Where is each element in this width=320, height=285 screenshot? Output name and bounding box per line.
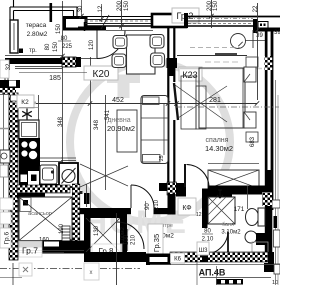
bottom black squares row: [216, 279, 243, 285]
wardrobe bedroom bottom with X: [208, 170, 259, 189]
door arc bedroom-hall: [184, 164, 186, 187]
svg-text:Гр.7: Гр.7: [22, 246, 38, 256]
svg-text:348: 348: [58, 116, 64, 127]
svg-text:К20: К20: [93, 69, 110, 80]
kitchen upper cabinet: [38, 95, 40, 122]
door leaf terrace: [96, 31, 98, 59]
sofa: [141, 96, 168, 164]
chair right 1: [150, 35, 164, 49]
label K6: [171, 253, 185, 263]
wall below elevator right: [42, 247, 84, 254]
door arc living-hall: [131, 185, 154, 208]
svg-text:тр.: тр.: [29, 48, 37, 54]
svg-text:3.10м2: 3.10м2: [221, 230, 241, 236]
corridor dash line: [0, 268, 140, 270]
right margin black bits: [274, 216, 278, 228]
building outline west thin: [3, 93, 5, 230]
svg-text:348: 348: [94, 119, 100, 130]
elevator cab: [19, 197, 72, 241]
dining table: [127, 35, 156, 74]
vent box H: [258, 22, 268, 29]
window band bedroom: [188, 18, 253, 20]
svg-text:281: 281: [209, 97, 221, 104]
terrace floor drain: [19, 49, 23, 54]
svg-text:200: 200: [117, 0, 123, 11]
svg-text:120: 120: [89, 39, 95, 50]
wardrobe by door: [181, 76, 196, 129]
kitchen cabinet dark: [19, 161, 40, 188]
svg-text:К2: К2: [21, 99, 29, 106]
label Gr6 rotated left: [0, 228, 11, 248]
svg-text:АП.4В: АП.4В: [199, 268, 226, 278]
bedroom curtain line: [177, 55, 247, 57]
svg-text:452: 452: [112, 97, 124, 104]
wall bathroom west bottom end: [202, 250, 208, 262]
svg-text:210: 210: [154, 199, 160, 210]
svg-text:х: х: [90, 270, 93, 276]
lamp circle: [231, 34, 246, 49]
svg-text:Гр.35: Гр.35: [152, 234, 161, 252]
wall living south: [80, 208, 131, 214]
wire grid line vertical x62: [62, 1, 64, 192]
svg-text:20.90м2: 20.90м2: [107, 124, 135, 133]
chair left 2: [112, 54, 126, 68]
svg-text:30: 30: [78, 5, 84, 12]
wall pier left of bedroom window: [184, 13, 188, 28]
right side boxes: [272, 200, 280, 208]
asterisk symbol: [22, 109, 32, 120]
entry door arc: [117, 222, 144, 249]
dim line main horizontal: [16, 102, 36, 104]
bathroom east line: [196, 262, 198, 285]
dim ticks: [17, 101, 21, 105]
svg-text:10: 10: [272, 280, 278, 285]
wall bedroom south: [159, 183, 168, 191]
terrace floor edge: [5, 55, 63, 57]
wall bathroom west: [202, 189, 208, 229]
elevator corner black: [72, 184, 80, 193]
label box 32 rotated: [0, 60, 9, 78]
window band living room: [85, 16, 153, 18]
svg-text:асансьор: асансьор: [28, 211, 52, 217]
label Sh3: [197, 242, 209, 255]
svg-text:Гр.6: Гр.6: [4, 232, 11, 245]
svg-text:Ш3: Ш3: [199, 248, 208, 254]
wall east solid fill low: [265, 170, 272, 255]
label Gr7: [19, 241, 42, 257]
svg-text:210: 210: [131, 234, 137, 245]
door leaf bedroom: [174, 83, 178, 120]
svg-text:190: 190: [59, 223, 65, 234]
terrace divider bar: [50, 3, 53, 22]
label box K23: [179, 67, 202, 81]
svg-text:баня: баня: [222, 222, 234, 228]
svg-text:тераса: тераса: [26, 22, 47, 29]
nightstand top: [246, 57, 258, 67]
label Gr8: [92, 244, 122, 257]
ladder icon: [62, 226, 70, 241]
bed: [199, 68, 245, 128]
door arc terrace: [97, 31, 125, 59]
west wall white box: [11, 95, 18, 101]
label Gr3 rotated: [148, 224, 163, 261]
kitchen fan lines: [80, 164, 128, 186]
wall below terrace: [5, 58, 63, 64]
wire grid line vertical x105: [105, 95, 107, 190]
svg-text:130: 130: [94, 225, 100, 236]
boiler box with circle slash: [59, 163, 78, 187]
coffee table: [117, 110, 137, 152]
nightstand bottom: [246, 132, 258, 142]
svg-text:171: 171: [234, 206, 245, 213]
terrace rail outer: [10, 0, 77, 20]
svg-text:150: 150: [53, 41, 59, 52]
svg-text:541: 541: [105, 109, 111, 120]
shower: [208, 197, 235, 224]
svg-text:12: 12: [196, 212, 202, 218]
stove: [19, 138, 40, 161]
svg-text:25: 25: [159, 155, 165, 161]
cabinet connector: [57, 184, 62, 189]
wall stub above: [5, 64, 8, 80]
svg-text:150: 150: [56, 23, 62, 34]
svg-text:2.80м2: 2.80м2: [27, 31, 48, 38]
counter lines: [40, 157, 62, 159]
window sill pier: [78, 27, 106, 31]
watermark ring: [70, 62, 230, 222]
watermark T glyph: [107, 75, 140, 99]
shaft Gr8: [84, 212, 125, 218]
wall living-bedroom divider: [167, 27, 169, 183]
chair right 2: [151, 53, 165, 67]
wall bedroom north face line: [186, 16, 280, 18]
svg-text:32: 32: [6, 63, 12, 70]
label box Gr2: [172, 8, 199, 23]
elevator bottom wall: [19, 241, 84, 248]
svg-text:К6: К6: [174, 257, 181, 263]
svg-text:22: 22: [253, 5, 259, 12]
svg-text:80: 80: [45, 43, 51, 50]
wall corner northwest: [0, 80, 20, 88]
wall inner face lines kitchen top: [15, 66, 62, 68]
sink: [40, 165, 57, 184]
terrace door frame: [65, 18, 87, 30]
svg-text:90: 90: [145, 203, 151, 210]
svg-text:150: 150: [213, 0, 219, 11]
bottom wall: [84, 252, 146, 262]
wall bridge to elevator: [17, 192, 45, 199]
wire grid line vertical x90: [90, 57, 92, 212]
pillow top: [244, 67, 256, 82]
svg-text:КФ: КФ: [182, 205, 191, 212]
lines below elevator: [19, 250, 84, 252]
wardrobe bedroom top: [190, 47, 240, 49]
elevator right hatch wall: [72, 184, 80, 246]
neighbor boxes left: [0, 198, 13, 210]
wall east double line: [265, 31, 268, 255]
terrace window jamb: [10, 20, 18, 53]
washbasin: [245, 231, 257, 243]
wall east hatch: [265, 56, 273, 70]
fridge cabinet: [19, 120, 39, 139]
toilet: [246, 209, 259, 226]
svg-text:225: 225: [62, 44, 73, 50]
shaft west wall: [84, 212, 91, 262]
label box K2: [15, 102, 36, 105]
svg-text:150: 150: [124, 0, 130, 11]
svg-text:683: 683: [250, 136, 256, 147]
right margin lines: [275, 80, 277, 285]
top dim verticals: [81, 0, 83, 16]
chair left 1: [113, 36, 127, 49]
svg-text:39: 39: [274, 30, 280, 36]
label box KF: [178, 198, 196, 215]
svg-text:80: 80: [204, 229, 211, 235]
door swing lines bedroom: [175, 85, 227, 122]
beam Gr2 slot: [152, 14, 186, 27]
svg-text:спалня: спалня: [206, 137, 229, 144]
svg-text:12: 12: [98, 5, 104, 12]
window break slash: [101, 15, 109, 29]
kitchen door jamb marks: [84, 193, 90, 204]
wall junction blob: [167, 58, 178, 68]
wall hatch below terrace: [62, 57, 76, 67]
washing machine neighbor: [0, 150, 10, 163]
svg-text:185: 185: [49, 75, 61, 82]
label box K20: [84, 66, 118, 80]
corridor label boxes: [19, 263, 32, 276]
elevator top hatch wall: [17, 185, 70, 193]
wall top right corner: [253, 19, 258, 33]
svg-text:К23: К23: [182, 70, 197, 80]
wall black pier right of hatch: [76, 57, 81, 67]
svg-text:14.30м2: 14.30м2: [205, 144, 233, 153]
dash-dot line bedroom: [176, 106, 279, 108]
wall west hatched: [9, 93, 18, 260]
pillow bottom: [244, 112, 256, 128]
door arc bathroom: [205, 231, 228, 254]
svg-text:100: 100: [124, 234, 130, 245]
